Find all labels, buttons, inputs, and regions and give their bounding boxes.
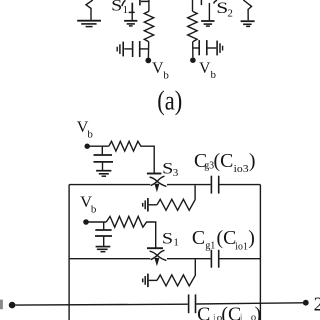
svg-text:2: 2 [227,8,233,20]
svg-text:C: C [192,227,205,249]
svg-text:S: S [162,160,173,177]
svg-text:b: b [163,69,169,81]
svg-text:): ) [248,227,255,249]
svg-text:b: b [211,69,217,81]
svg-text:o: o [217,312,223,320]
svg-text:1: 1 [173,237,179,249]
svg-text:(C: (C [214,150,234,172]
svg-text:i: i [240,313,243,320]
svg-text:(C: (C [217,227,237,249]
svg-text:(a): (a) [157,85,182,116]
svg-text:): ) [249,150,256,172]
svg-text:o: o [251,313,256,320]
svg-text:2: 2 [314,294,320,315]
svg-text:(C: (C [221,304,241,320]
svg-text:io3: io3 [234,163,250,175]
svg-text:S: S [162,231,173,248]
svg-text:S: S [111,0,122,15]
svg-text:io1: io1 [235,241,248,253]
svg-text:1: 1 [123,4,129,16]
svg-text:V: V [199,60,211,77]
svg-text:C: C [197,304,210,320]
svg-text:b: b [87,128,93,140]
svg-text:g3: g3 [204,160,214,172]
svg-text:g1: g1 [205,239,215,251]
svg-text:3: 3 [173,167,179,179]
svg-text:b: b [91,204,97,216]
svg-text:i: i [213,312,216,320]
